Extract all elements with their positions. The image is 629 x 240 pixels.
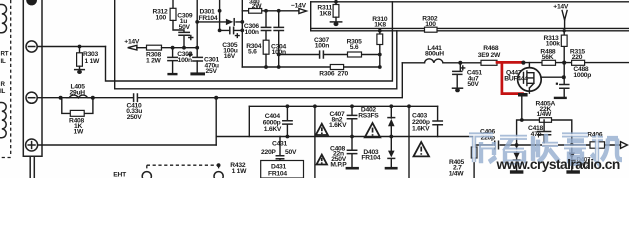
connector terminal strip (23, 0, 42, 156)
node (218, 9, 222, 13)
svg-text:1K8: 1K8 (374, 22, 386, 29)
svg-text:1 1W: 1 1W (232, 168, 248, 175)
wire: vertical feeder x242.3 down to R306 row (241, 0, 243, 67)
svg-text:56K: 56K (542, 54, 554, 61)
svg-text:50V: 50V (467, 81, 479, 88)
terminal pin minus (node to L405 wire) (26, 92, 37, 103)
capacitor C305 (series electrolytic) (230, 27, 234, 33)
svg-text:RT: RT (1, 51, 9, 58)
capacitor C408 (351, 137, 353, 167)
capacitor C406 (series) (495, 141, 499, 149)
watermark: crystalradio chinese characters (469, 134, 622, 164)
node (378, 53, 382, 57)
node: L405/R408 left (59, 96, 63, 100)
svg-text:www.crystalradio.cn: www.crystalradio.cn (496, 157, 620, 172)
svg-text:RS3FS: RS3FS (358, 113, 379, 120)
svg-text:1000p: 1000p (573, 72, 591, 79)
wire: R306 row (242, 66, 379, 68)
resistor R305 (348, 52, 362, 57)
wire: long riser x114.7 and y89 run to rail (115, 0, 397, 89)
resistor R405A with loop (517, 120, 572, 170)
capacitor C404 (286, 106, 288, 136)
svg-text:5.6: 5.6 (248, 49, 257, 56)
svg-text:100n: 100n (315, 43, 329, 50)
C309 polarity mark (189, 36, 193, 40)
svg-text:1W: 1W (74, 129, 84, 136)
node (389, 135, 393, 139)
node (264, 9, 268, 13)
-14V arrow (299, 9, 307, 14)
svg-text:100n: 100n (245, 29, 259, 36)
wire: C305 row (220, 29, 243, 31)
diode D301 (226, 19, 233, 25)
wire: plus terminal run (38, 144, 216, 146)
output arrow right (621, 142, 628, 149)
terminal pin (top, clipped) (26, 0, 37, 5)
svg-text:100k: 100k (546, 41, 560, 48)
resistor R406 (590, 142, 605, 148)
capacitor C407 (351, 106, 353, 136)
node gate junction (562, 61, 566, 65)
C408 ground bar (346, 167, 359, 170)
capacitor C451 (electrolytic) (457, 63, 460, 88)
wire pair leaving strip bottom (30, 156, 34, 178)
capacitor C488 (563, 63, 565, 97)
svg-text:R306 270: R306 270 (319, 71, 348, 78)
svg-text:25V: 25V (206, 68, 218, 75)
node (389, 104, 393, 108)
zener D406 (513, 153, 519, 160)
node gate (521, 61, 525, 65)
node (570, 143, 574, 147)
svg-text:1 1W: 1 1W (85, 58, 101, 65)
svg-text:1.6KV: 1.6KV (329, 122, 347, 129)
node (214, 96, 218, 100)
top +14V rail (311, 1, 629, 3)
capacitor C307 (series) (320, 51, 324, 58)
resistor R303 (79, 47, 81, 53)
wire: riser x216 (return bus to W2/plus) (215, 98, 217, 145)
resistor R306 (330, 65, 343, 70)
Q447 body line to C488 node (541, 76, 564, 78)
svg-text:FR104: FR104 (361, 155, 380, 162)
D407 ground bar (566, 170, 580, 173)
node (520, 118, 524, 122)
resistor R468 (481, 60, 497, 65)
svg-text:2W: 2W (252, 3, 262, 10)
svg-text:100n: 100n (178, 57, 192, 64)
svg-text:100: 100 (156, 15, 167, 22)
warning triangle hv-1 (316, 124, 328, 135)
svg-text:R468: R468 (483, 45, 499, 52)
resistor R304 (263, 40, 269, 54)
node (286, 135, 290, 139)
capacitor C306 (265, 11, 267, 40)
terminal pin minus (node to R303 wire) (26, 41, 37, 52)
svg-text:50V: 50V (179, 24, 191, 31)
svg-text:R: R (1, 81, 6, 88)
resistor R408 parallel loop (62, 98, 93, 114)
wire: drop x314.9 (314, 106, 316, 178)
svg-text:50V: 50V (285, 149, 297, 156)
node (217, 163, 221, 167)
node (407, 104, 411, 108)
node (264, 65, 268, 69)
svg-text:IL: IL (1, 58, 6, 65)
resistor R405 (471, 147, 477, 158)
resistor R311 (334, 0, 338, 4)
node C451 tap (458, 61, 462, 65)
C488 ground bar (554, 97, 567, 99)
node D301 wire tap (195, 20, 199, 24)
resistor R313 (563, 31, 565, 63)
capacitor C302 (172, 48, 174, 73)
svg-text:1 2W: 1 2W (146, 58, 162, 65)
wire: R308 output rail (162, 47, 198, 49)
wire: -14V row (242, 10, 299, 12)
R303 ground terminal (75, 69, 85, 71)
capacitor C410 (series) (134, 94, 138, 101)
wire: W2 end drop x474 and bottom-right run y145 (474, 137, 620, 179)
node (286, 104, 290, 108)
diode D403 (390, 137, 392, 167)
svg-text:IL: IL (0, 88, 5, 95)
svg-text:EHT: EHT (113, 171, 127, 178)
wire: +14V to R308 (137, 47, 147, 49)
svg-text:FR104: FR104 (268, 170, 287, 177)
capacitor C403 (437, 106, 439, 136)
node (277, 65, 281, 69)
svg-text:100: 100 (425, 21, 436, 28)
svg-text:C431: C431 (272, 141, 288, 148)
wire: W1-W2 left link (248, 106, 250, 136)
node: L405/R408 right (91, 96, 95, 100)
resistor R315 (572, 60, 585, 65)
node (350, 135, 354, 139)
svg-text:5.6: 5.6 (350, 44, 359, 51)
svg-text:1/4W: 1/4W (537, 111, 553, 118)
resistor R308 (147, 45, 162, 50)
transistor Q447 BUF444 (518, 63, 542, 97)
C451 ground (453, 87, 463, 89)
capacitor C418 (543, 120, 545, 145)
svg-text:16V: 16V (224, 53, 236, 60)
wire: D301 row (197, 21, 242, 23)
svg-text:1K8: 1K8 (319, 10, 331, 17)
svg-text:800uH: 800uH (425, 51, 444, 58)
node (240, 20, 244, 24)
node C302 tap (171, 46, 175, 50)
svg-text:M.P.P: M.P.P (330, 161, 347, 168)
node C309 tap (182, 46, 186, 50)
diode D402 (390, 106, 392, 136)
wire: vertical feeder x197 from top (196, 0, 198, 57)
svg-text:1.6KV: 1.6KV (264, 126, 282, 133)
diode D431 box (261, 161, 304, 179)
wire: left loop (x105.5 down, y81 across, up to top rail) (106, 2, 393, 81)
wire: minus terminal 2 main return run (37, 63, 402, 98)
warning triangle hv-2 (365, 123, 380, 137)
svg-text:1.6KV: 1.6KV (412, 125, 430, 132)
node (378, 29, 382, 33)
+14V arrow (128, 45, 137, 50)
capacitor C301 (electrolytic) (193, 57, 202, 61)
zener D407 (569, 153, 575, 160)
node (350, 104, 354, 108)
node C301 tap (195, 46, 199, 50)
EHT pin circles (142, 172, 151, 181)
transformer winding (bottom-left, clipped) (0, 103, 6, 138)
inductor L405 coil bumps (67, 95, 91, 98)
R311 ground (330, 21, 341, 23)
+14V down arrow (562, 11, 567, 21)
D403 ground bar (385, 167, 398, 170)
wire: W2 bus (216, 136, 474, 138)
node (218, 29, 222, 33)
node (313, 104, 317, 108)
wire: vertical feeder x219.6 (219, 0, 221, 30)
warning triangle hv-3 (414, 142, 430, 156)
rail pair (311, 28, 629, 30)
svg-text:3E9 2W: 3E9 2W (478, 52, 501, 59)
svg-text:BUF444: BUF444 (504, 75, 528, 82)
node (515, 143, 519, 147)
node: R303 tap (78, 45, 82, 49)
C451 polarity mark (461, 66, 465, 70)
svg-text:1/4W: 1/4W (449, 170, 465, 177)
terminal pin plus (node to EHT wire) (26, 139, 38, 151)
svg-text:+14V: +14V (553, 3, 569, 10)
transformer winding (top-left, clipped) (0, 5, 6, 33)
D406 ground bar (510, 170, 524, 173)
EHT dashed connections (147, 165, 219, 171)
resistor R340 (top, clipped label) (249, 9, 262, 14)
warning triangle hv-4 (317, 155, 328, 165)
C301 polarity mark (188, 53, 192, 57)
svg-text:220: 220 (572, 54, 583, 61)
node (277, 9, 281, 13)
svg-text:220P: 220P (261, 149, 276, 156)
wire: C307/R305 row (279, 54, 380, 56)
wire: W1 bus (249, 105, 437, 107)
wire: R310 column x379.8 (379, 31, 381, 67)
capacitor C304 (278, 11, 280, 67)
inductor L441 (425, 59, 444, 63)
C302 ground bar (167, 73, 177, 75)
wire: gate row to R488 (523, 62, 629, 64)
wire: minus terminal to node A riser (37, 46, 105, 48)
wire: L441 row (402, 62, 497, 64)
capacitor C309 (electrolytic) (173, 20, 184, 47)
node (240, 29, 244, 33)
node (378, 65, 382, 69)
transformer boundary dashed line (0, 0, 11, 158)
wire: Q447 source drop (521, 97, 523, 121)
resistor R302 (425, 27, 438, 32)
capacitor C431 (279, 137, 281, 161)
svg-text:250V: 250V (127, 114, 142, 121)
resistor R488 (542, 60, 556, 65)
rail left drop (310, 2, 312, 31)
red highlighted wire loop at Q447 (497, 62, 523, 93)
resistor R310 (377, 34, 383, 45)
C301 ground bar (190, 72, 205, 75)
node (563, 29, 566, 32)
C305 polarity mark (236, 34, 240, 38)
resistor R312 (172, 0, 174, 8)
C488 polarity mark (556, 83, 558, 85)
node (277, 53, 281, 57)
wire: drop x409 (408, 106, 410, 178)
svg-text:FR104: FR104 (199, 15, 218, 22)
